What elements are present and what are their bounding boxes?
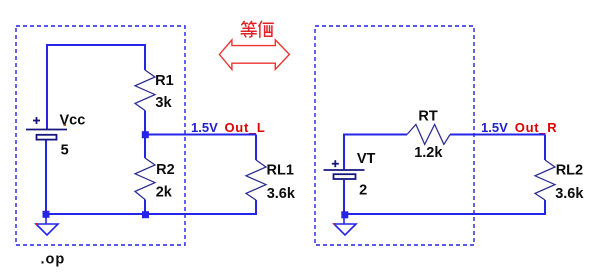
- svg-text:3k: 3k: [155, 95, 172, 111]
- svg-text:Out_R: Out_R: [515, 120, 558, 135]
- svg-text:1.2k: 1.2k: [414, 145, 443, 161]
- svg-text:2: 2: [359, 183, 367, 199]
- svg-text:R2: R2: [156, 162, 175, 178]
- svg-text:1.5V: 1.5V: [191, 120, 218, 135]
- svg-text:2k: 2k: [156, 185, 173, 201]
- svg-text:RT: RT: [418, 108, 437, 124]
- svg-text:1.5V: 1.5V: [481, 120, 508, 135]
- svg-text:3.6k: 3.6k: [267, 186, 296, 202]
- svg-text:RL2: RL2: [556, 163, 583, 179]
- svg-text:5: 5: [61, 143, 69, 159]
- svg-text:Out_L: Out_L: [225, 120, 266, 135]
- svg-text:VT: VT: [357, 151, 376, 167]
- svg-text:Vcc: Vcc: [60, 112, 86, 128]
- svg-text:.op: .op: [41, 252, 66, 268]
- svg-text:R1: R1: [155, 73, 174, 89]
- svg-text:3.6k: 3.6k: [555, 186, 584, 202]
- svg-text:RL1: RL1: [267, 163, 294, 179]
